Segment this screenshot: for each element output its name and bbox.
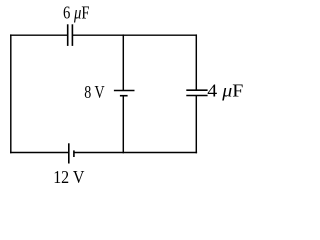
svg-text:6 μF: 6 μF: [63, 3, 90, 23]
svg-text:4 μF: 4 μF: [207, 80, 243, 100]
svg-text:8 V: 8 V: [84, 82, 104, 102]
svg-text:12 V: 12 V: [53, 167, 84, 187]
